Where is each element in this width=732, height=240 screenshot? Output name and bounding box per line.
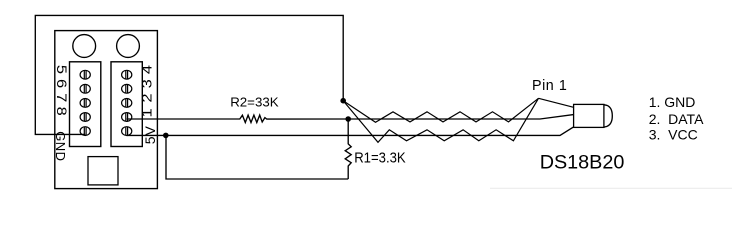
- svg-text:1. GND: 1. GND: [649, 94, 696, 110]
- svg-text:2: 2: [140, 94, 155, 103]
- sensor DS18B20 body: [574, 104, 604, 127]
- wire DATA with resistor R2: [127, 115, 349, 122]
- node C junction dot 5V: [163, 133, 169, 139]
- mounting hole left: [73, 35, 96, 58]
- terminal block right: [111, 62, 142, 147]
- wire convergence to sensor pin1: [539, 98, 574, 107]
- svg-text:1: 1: [140, 108, 155, 117]
- svg-text:7: 7: [53, 93, 68, 102]
- svg-text:6: 6: [53, 79, 68, 88]
- svg-text:Pin 1: Pin 1: [532, 78, 567, 94]
- screw terminals right column pins 4-1,5V: [122, 70, 132, 135]
- connector body J1: [55, 31, 158, 189]
- wire R1 return to 5V: [166, 135, 348, 179]
- svg-text:3. VCC: 3. VCC: [649, 126, 698, 142]
- svg-text:4: 4: [140, 65, 155, 74]
- resistor R1 vertical with leads: [345, 119, 351, 179]
- node A junction dot GND: [340, 98, 346, 104]
- svg-text:R2=33K: R2=33K: [230, 95, 279, 110]
- node B junction dot DATA: [345, 116, 351, 122]
- svg-text:GND: GND: [53, 131, 68, 161]
- svg-text:5: 5: [53, 65, 68, 74]
- component square on connector: [88, 157, 118, 185]
- wire DATA to sensor: [348, 115, 573, 119]
- mounting hole right: [117, 35, 140, 58]
- cable twisted strand lower (GND): [343, 98, 538, 142]
- svg-text:2. DATA: 2. DATA: [649, 111, 704, 127]
- svg-text:DS18B20: DS18B20: [540, 151, 625, 173]
- terminal block left: [70, 62, 101, 147]
- screw terminals left column pins 5-8,GND: [80, 70, 90, 135]
- sensor cap: [604, 105, 612, 127]
- cable twisted strand upper (GND): [343, 98, 538, 122]
- svg-text:8: 8: [53, 107, 68, 116]
- svg-text:3: 3: [140, 79, 155, 88]
- wire GND loop from connector around top to node A: [35, 15, 343, 134]
- faint scan line: [490, 187, 732, 189]
- svg-text:R1=3.3K: R1=3.3K: [354, 150, 406, 167]
- wire 5V: [127, 127, 574, 135]
